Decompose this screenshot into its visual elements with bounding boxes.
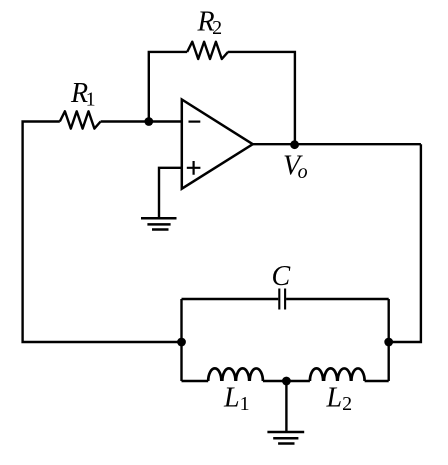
svg-text:L1: L1 bbox=[223, 382, 250, 415]
svg-text:R1: R1 bbox=[70, 78, 96, 111]
node center tap between L1 and L2 bbox=[282, 377, 291, 386]
wire tank right vertical bbox=[388, 299, 390, 381]
node left tank junction bbox=[177, 338, 186, 347]
wire non-inverting input to ground bbox=[159, 168, 182, 218]
wire R2 loop right side down to output bbox=[228, 52, 295, 144]
wire R2 loop left side bbox=[149, 52, 187, 122]
resistor R1 bbox=[60, 111, 101, 128]
svg-text:R2: R2 bbox=[197, 7, 223, 40]
wire left loop (R1 left lead, left vertical, bottom horizontal to tank) bbox=[23, 122, 182, 343]
svg-text:L2: L2 bbox=[326, 383, 353, 416]
op-amp U1 triangle bbox=[182, 100, 253, 189]
inductor L2 bbox=[310, 368, 365, 381]
wire center tap to ground bbox=[285, 381, 287, 432]
wire tank bottom left lead bbox=[182, 380, 209, 382]
wire op-amp output bbox=[253, 143, 421, 145]
wire tank bottom center segment bbox=[263, 380, 310, 382]
node right tank junction bbox=[384, 338, 393, 347]
ground (op-amp non-inverting input) bbox=[141, 218, 177, 229]
wire tank left vertical bbox=[180, 299, 182, 381]
node Vo output bbox=[290, 140, 299, 149]
op-amp U1 non-inverting input plus sign bbox=[187, 161, 201, 175]
wire tank bottom right lead bbox=[365, 380, 389, 382]
wire right outer loop down to tank bbox=[389, 144, 421, 342]
capacitor C plates bbox=[279, 289, 285, 310]
wire from R1 to op-amp inverting input bbox=[101, 120, 182, 122]
svg-text:C: C bbox=[272, 261, 291, 292]
inductor L1 bbox=[208, 368, 263, 381]
wire tank top right from capacitor bbox=[286, 298, 389, 300]
wire tank top left to capacitor bbox=[182, 298, 279, 300]
ground (center tap) bbox=[267, 432, 304, 444]
svg-text:Vo: Vo bbox=[283, 151, 308, 184]
op-amp U1 inverting input minus sign bbox=[189, 120, 201, 122]
node junction at inverting input bbox=[144, 117, 153, 126]
resistor R2 bbox=[187, 42, 228, 59]
